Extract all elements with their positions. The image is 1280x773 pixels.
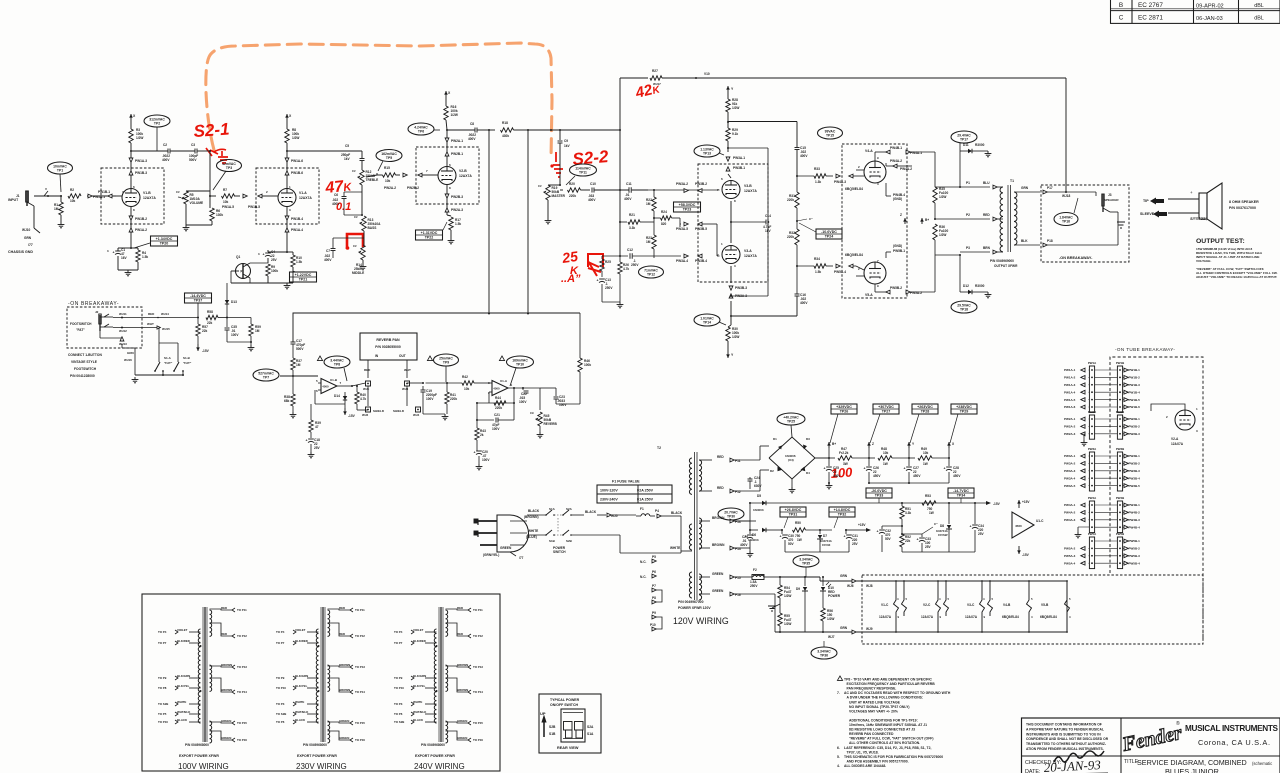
svg-text:TO P9: TO P9 xyxy=(276,676,285,680)
svg-text:PW4A-1: PW4A-1 xyxy=(1064,503,1076,507)
svg-text:GREEN: GREEN xyxy=(457,736,467,740)
test point box TP21 xyxy=(290,272,317,282)
svg-text:C10: C10 xyxy=(590,182,596,186)
svg-text:+: + xyxy=(904,467,906,471)
svg-text:WHITE: WHITE xyxy=(177,700,186,704)
svg-text:1/2W: 1/2W xyxy=(451,113,458,117)
resistor R15 xyxy=(383,173,396,177)
connector strip PW1A xyxy=(1089,366,1094,412)
export wiring outer box xyxy=(142,594,500,771)
svg-text:V2-A: V2-A xyxy=(1171,437,1179,441)
svg-text:TO P10: TO P10 xyxy=(394,686,404,690)
svg-text:GRN: GRN xyxy=(24,236,32,240)
svg-text:BLK/RED: BLK/RED xyxy=(177,639,190,643)
test point TP16 xyxy=(1054,213,1078,226)
svg-text:(GRN/YEL): (GRN/YEL) xyxy=(483,553,499,557)
svg-text:WHITE: WHITE xyxy=(295,700,304,704)
svg-text:GRN: GRN xyxy=(840,626,848,630)
svg-text:J2: J2 xyxy=(95,310,99,314)
svg-text:GREEN: GREEN xyxy=(339,719,349,723)
svg-text:PW3A-3: PW3A-3 xyxy=(1064,469,1076,473)
wire bus x528 xyxy=(527,130,529,314)
capacitor C26 xyxy=(868,458,870,466)
svg-text:C": C" xyxy=(809,217,813,221)
box TP34 xyxy=(948,488,974,498)
svg-text:TP21: TP21 xyxy=(299,278,308,282)
connector strip PW3A xyxy=(1089,452,1094,491)
connector PW2B-1 xyxy=(445,152,449,156)
svg-text:WHITE: WHITE xyxy=(413,700,422,704)
svg-text:+: + xyxy=(917,538,919,542)
svg-text:Z: Z xyxy=(900,213,902,217)
supply arrow Y xyxy=(727,86,729,93)
ground under R41 xyxy=(444,414,446,417)
svg-text:PW4B-1: PW4B-1 xyxy=(890,146,902,150)
svg-text:RED: RED xyxy=(717,486,724,490)
test point TP5 xyxy=(376,150,402,162)
svg-text:PW4A-2: PW4A-2 xyxy=(900,167,912,171)
svg-text:THIS SCHEMATIC IS FOR PCB FABR: THIS SCHEMATIC IS FOR PCB FABRICATION P/… xyxy=(844,755,943,759)
reverb pan box xyxy=(360,333,417,360)
svg-text:100V: 100V xyxy=(492,427,500,431)
svg-text:100V: 100V xyxy=(519,400,527,404)
svg-text:GREEN: GREEN xyxy=(500,546,512,550)
svg-text:15V3X: 15V3X xyxy=(822,543,831,547)
svg-text:TO S2B: TO S2B xyxy=(394,720,404,724)
tube V1-A xyxy=(256,168,319,224)
svg-text:+15V: +15V xyxy=(1022,500,1030,504)
svg-text:630V: 630V xyxy=(754,484,762,488)
feedback C21 xyxy=(476,403,478,420)
svg-text:TO P13: TO P13 xyxy=(355,665,365,669)
svg-text:WJ18: WJ18 xyxy=(1062,194,1071,198)
svg-text:PW5B-1: PW5B-1 xyxy=(893,249,905,253)
svg-text:PW2B-2: PW2B-2 xyxy=(1129,425,1141,429)
svg-text:TO P13: TO P13 xyxy=(473,665,483,669)
svg-text:PW1B-6: PW1B-6 xyxy=(291,171,303,175)
svg-text:ADJUST "VOLUME" TO REACH 10.85: ADJUST "VOLUME" TO REACH 10.85Vrms AT OU… xyxy=(1196,275,1277,279)
svg-text:REVERB PAN CONNECTED: REVERB PAN CONNECTED xyxy=(849,732,894,736)
svg-text:+307VDC: +307VDC xyxy=(878,405,894,409)
plate wire V2-B xyxy=(446,130,448,167)
svg-text:PW1B-1: PW1B-1 xyxy=(98,190,110,194)
svg-text:WJ8: WJ8 xyxy=(866,584,873,588)
svg-text:BROWN: BROWN xyxy=(457,688,468,692)
svg-text:V2-C: V2-C xyxy=(923,603,931,607)
svg-text:PW3A-1: PW3A-1 xyxy=(1064,454,1076,458)
test point box TP24 xyxy=(816,229,842,239)
svg-text:PW4A: PW4A xyxy=(1088,496,1097,500)
connector strip PW5A xyxy=(1089,537,1094,569)
op-amp U1-A xyxy=(492,381,508,396)
svg-text:1M: 1M xyxy=(296,363,301,367)
svg-text:C21: C21 xyxy=(494,413,500,417)
svg-text:ALL DIODES ARE 1N4448.: ALL DIODES ARE 1N4448. xyxy=(844,764,886,768)
svg-text:GREEN: GREEN xyxy=(221,736,231,740)
svg-text:TO P15: TO P15 xyxy=(473,721,483,725)
svg-text:TP20: TP20 xyxy=(160,242,169,246)
svg-text:TO P10: TO P10 xyxy=(158,720,168,724)
svg-text:PW2B: PW2B xyxy=(1116,410,1124,414)
svg-text:SPEAKER: SPEAKER xyxy=(1104,198,1119,202)
svg-text:-15V: -15V xyxy=(202,349,210,353)
svg-text:PW3A-4: PW3A-4 xyxy=(1064,476,1076,480)
svg-text:S1B: S1B xyxy=(549,539,556,543)
test point TP9 xyxy=(427,356,432,361)
resistor R2 xyxy=(68,194,81,198)
resistor R4 xyxy=(131,247,138,249)
svg-text:RED: RED xyxy=(364,368,371,372)
connector PW1A-2 xyxy=(129,228,133,232)
svg-text:BLK/GRN: BLK/GRN xyxy=(413,674,426,678)
svg-text:dBL: dBL xyxy=(1254,3,1264,9)
svg-text:BLACK: BLACK xyxy=(413,718,424,722)
svg-text:PW3B-2: PW3B-2 xyxy=(695,182,707,186)
resistor R43 xyxy=(476,420,478,428)
resistor R48 xyxy=(878,456,892,460)
feedback wire TP13 node to cathode xyxy=(727,147,729,149)
test point TP12 xyxy=(639,266,664,278)
red switch scribble near C3 xyxy=(206,148,228,163)
secondary GREEN P15 xyxy=(699,576,710,578)
ground R59 xyxy=(250,342,252,345)
svg-text:1N4003: 1N4003 xyxy=(753,508,764,512)
svg-text:RED: RED xyxy=(457,632,463,636)
resistor R53 xyxy=(922,501,936,505)
resistor R38 xyxy=(292,376,294,394)
svg-text:+263VDC: +263VDC xyxy=(917,405,933,409)
svg-text:500V: 500V xyxy=(296,347,304,351)
svg-text:SERVICE DIAGRAM, COMBINED: SERVICE DIAGRAM, COMBINED xyxy=(1137,758,1247,767)
resistor R36 xyxy=(933,224,937,240)
footswitch gnd wire xyxy=(121,344,123,348)
svg-text:400V: 400V xyxy=(740,543,748,547)
svg-text:-26.6VDC: -26.6VDC xyxy=(871,489,887,493)
svg-text:GREEN: GREEN xyxy=(712,589,724,593)
svg-text:WHITE: WHITE xyxy=(670,546,680,550)
connector PW3A-5 xyxy=(684,222,688,226)
wire P2 RED xyxy=(960,218,990,220)
test point box TP23 xyxy=(674,202,701,212)
switch S1-B xyxy=(159,342,178,344)
capacitor C32 xyxy=(882,525,902,527)
svg-text:BROWN: BROWN xyxy=(339,663,350,667)
svg-text:TO P4: TO P4 xyxy=(394,630,403,634)
resistor R31 xyxy=(795,192,799,208)
svg-text:100k: 100k xyxy=(271,269,278,273)
svg-text:C8: C8 xyxy=(470,122,474,126)
svg-text:V1-B: V1-B xyxy=(143,191,151,195)
svg-text:(GND): (GND) xyxy=(893,197,902,201)
grid network left of V3 xyxy=(648,189,720,191)
wire to C9 xyxy=(528,129,620,131)
svg-text:(BROWN): (BROWN) xyxy=(524,515,539,519)
supply arrow Y down xyxy=(727,341,729,350)
svg-text:TO P14: TO P14 xyxy=(237,690,247,694)
svg-text:-ON BREAKAWAY-: -ON BREAKAWAY- xyxy=(68,301,119,307)
svg-text:RED: RED xyxy=(221,606,227,610)
svg-text:1.5k: 1.5k xyxy=(815,270,821,274)
svg-text:Q1: Q1 xyxy=(236,255,240,259)
wire V1-A plate to tone stack xyxy=(287,150,362,152)
svg-text:TP32: TP32 xyxy=(838,513,847,517)
svg-text:F2A 250V: F2A 250V xyxy=(637,489,654,493)
svg-text:D14: D14 xyxy=(334,394,340,398)
AC plug xyxy=(497,515,529,552)
svg-text:220k: 220k xyxy=(787,198,794,202)
svg-text:RED: RED xyxy=(339,606,345,610)
plug wires labels xyxy=(510,520,527,522)
svg-text:S1-B: S1-B xyxy=(183,356,191,360)
svg-text:25V: 25V xyxy=(314,446,321,450)
test point TP13 xyxy=(694,145,720,157)
resistor R56 xyxy=(822,591,824,608)
svg-text:PW3A-4: PW3A-4 xyxy=(676,259,688,263)
svg-text:TO P6: TO P6 xyxy=(394,712,403,716)
ground under volume xyxy=(185,225,187,228)
box TP31 xyxy=(780,507,806,517)
svg-text:TP29: TP29 xyxy=(960,410,969,414)
svg-text:400V: 400V xyxy=(162,158,170,162)
tube V3-B xyxy=(698,164,768,282)
svg-text:INPUT: INPUT xyxy=(8,198,19,202)
svg-text:+1.34VDC: +1.34VDC xyxy=(156,237,173,241)
svg-text:BASS: BASS xyxy=(368,226,377,230)
svg-text:1/2W: 1/2W xyxy=(136,136,143,140)
+15V arrow xyxy=(846,529,856,531)
connector PW1B-6 xyxy=(285,171,289,175)
wire x620 vertical xyxy=(619,78,621,256)
svg-text:PW3B: PW3B xyxy=(1116,447,1124,451)
svg-text:PW4A-2: PW4A-2 xyxy=(1064,511,1076,515)
svg-text:C#: C# xyxy=(353,244,357,248)
svg-text:TP6: TP6 xyxy=(418,129,424,133)
middle pot R14 xyxy=(361,245,365,260)
red staple mark near C7/R14 xyxy=(347,234,363,249)
svg-text:25V: 25V xyxy=(978,532,985,536)
svg-text:PW5B-2: PW5B-2 xyxy=(890,286,902,290)
svg-text:-15V: -15V xyxy=(348,414,356,418)
svg-text:F1: F1 xyxy=(640,507,644,511)
arrow Y node xyxy=(908,442,910,448)
svg-text:+329VDC: +329VDC xyxy=(836,405,852,409)
tube breakaway dashed box xyxy=(1110,357,1203,641)
svg-text:(schematic: (schematic xyxy=(1252,761,1272,766)
connector PW1B-2 xyxy=(129,216,133,220)
svg-text:P/N 0028055000: P/N 0028055000 xyxy=(375,345,401,349)
svg-text:WJ13: WJ13 xyxy=(119,342,127,346)
svg-text:D13: D13 xyxy=(231,300,237,304)
svg-text:16V: 16V xyxy=(121,256,128,260)
svg-text:Z: Z xyxy=(872,442,874,446)
svg-text:230V WIRING: 230V WIRING xyxy=(296,762,347,771)
capacitor C28 xyxy=(948,458,950,466)
svg-text:TO P11: TO P11 xyxy=(473,608,483,612)
svg-text:PW2A-2: PW2A-2 xyxy=(384,186,396,190)
svg-text:220k: 220k xyxy=(495,406,502,410)
svg-text:WJ16: WJ16 xyxy=(124,358,132,362)
svg-text:400V: 400V xyxy=(324,258,332,262)
svg-text:TO P16: TO P16 xyxy=(355,738,365,742)
connector PW4A-3 xyxy=(836,174,840,178)
svg-text:8 OHM SPEAKER: 8 OHM SPEAKER xyxy=(1229,200,1259,204)
svg-text:400V: 400V xyxy=(800,301,808,305)
input jack J1 xyxy=(26,191,28,206)
master pot R19 xyxy=(559,184,561,186)
svg-text:ADDITIONAL CONDITIONS FOR TP1-: ADDITIONAL CONDITIONS FOR TP1-TP19: xyxy=(849,718,918,722)
resistor R10 xyxy=(287,251,293,253)
supply arrow X V2-B xyxy=(445,91,447,98)
svg-text:TP1: TP1 xyxy=(57,168,63,172)
svg-text:V3-B: V3-B xyxy=(744,184,752,188)
svg-text:RED: RED xyxy=(457,606,463,610)
svg-text:R7: R7 xyxy=(223,188,227,192)
svg-text:PW5B-4: PW5B-4 xyxy=(1129,561,1141,565)
svg-text:2k: 2k xyxy=(480,433,484,437)
svg-text:-ON TUBE BREAKAWAY-: -ON TUBE BREAKAWAY- xyxy=(1115,347,1175,352)
svg-text:PW2B-2: PW2B-2 xyxy=(407,186,419,190)
resistor R59 xyxy=(227,317,251,319)
svg-text:®: ® xyxy=(1176,720,1180,727)
svg-text:+: + xyxy=(1190,190,1193,195)
svg-text:TREBLE: TREBLE xyxy=(366,178,379,182)
connector PW3A-1 xyxy=(726,157,730,161)
revision table xyxy=(1111,0,1280,23)
svg-text:R27: R27 xyxy=(652,69,658,73)
svg-text:PW1B-3: PW1B-3 xyxy=(1129,383,1141,387)
transistor Q1 xyxy=(236,264,251,279)
svg-text:CONNECT 1-BUTTON: CONNECT 1-BUTTON xyxy=(68,353,102,357)
svg-text:PW5B: PW5B xyxy=(1116,532,1124,536)
svg-text:R20: R20 xyxy=(569,182,575,186)
svg-text:/77: /77 xyxy=(28,243,33,247)
svg-text:10k: 10k xyxy=(883,451,889,455)
svg-text:VOLTAGES MAY VARY +/- 20%: VOLTAGES MAY VARY +/- 20% xyxy=(849,709,898,713)
svg-text:TYPICAL POWER: TYPICAL POWER xyxy=(550,698,580,702)
svg-text:PW1B-6: PW1B-6 xyxy=(1129,405,1141,409)
svg-text:TP7: TP7 xyxy=(263,375,269,379)
secondary GREEN P16 xyxy=(699,593,710,595)
svg-text:R21: R21 xyxy=(629,213,635,217)
svg-text:REVERB: REVERB xyxy=(544,422,558,426)
svg-text:PW1A-6: PW1A-6 xyxy=(291,159,303,163)
capacitor C22 xyxy=(522,388,524,390)
svg-text:C#: C# xyxy=(176,190,180,194)
svg-text:C: C xyxy=(1119,15,1124,22)
heater bottom bus xyxy=(775,631,825,633)
svg-text:12AX7A: 12AX7A xyxy=(744,254,757,258)
ground under R4 xyxy=(127,270,129,273)
svg-text:220k: 220k xyxy=(450,397,457,401)
svg-text:PW3B-3: PW3B-3 xyxy=(735,286,747,290)
connector P17 xyxy=(1043,190,1047,194)
svg-text:S2A: S2A xyxy=(587,725,594,729)
box TP32 xyxy=(829,507,855,517)
ground under R26 xyxy=(619,302,621,305)
svg-text:250V: 250V xyxy=(631,263,639,267)
svg-text:22k: 22k xyxy=(207,321,213,325)
svg-text:EC 2871: EC 2871 xyxy=(1138,15,1163,22)
svg-text:OUTPUT TEST:: OUTPUT TEST: xyxy=(1196,238,1245,245)
svg-text:D12: D12 xyxy=(963,284,969,288)
svg-text:P1: P1 xyxy=(966,181,970,185)
svg-text:PW3A-5: PW3A-5 xyxy=(1064,484,1076,488)
svg-text:TP30: TP30 xyxy=(727,514,735,518)
svg-text:1M: 1M xyxy=(646,240,651,244)
resistor R21 xyxy=(619,221,621,223)
test point TP35 xyxy=(793,555,819,567)
svg-text:1/2W: 1/2W xyxy=(939,233,946,237)
svg-text:1/2W: 1/2W xyxy=(784,594,791,598)
box TP33 xyxy=(866,488,892,498)
svg-text:C9: C9 xyxy=(564,139,568,143)
svg-text:500V: 500V xyxy=(189,158,197,162)
svg-text:TO P7: TO P7 xyxy=(394,641,403,645)
svg-text:1kV: 1kV xyxy=(344,157,351,161)
capacitor C3 xyxy=(194,149,196,154)
capacitor C16 xyxy=(795,293,800,295)
svg-text:PW4B: PW4B xyxy=(1116,496,1124,500)
svg-text:WHT/BLK: WHT/BLK xyxy=(413,710,427,714)
svg-text:TO P9: TO P9 xyxy=(394,676,403,680)
svg-text:TO P16: TO P16 xyxy=(237,738,247,742)
capacitor C1 xyxy=(118,247,131,249)
svg-text:ATION FROM FENDER MUSICAL INST: ATION FROM FENDER MUSICAL INSTRUMENTS. xyxy=(1026,747,1104,751)
svg-text:1/2W: 1/2W xyxy=(732,335,739,339)
test point TP18 xyxy=(951,301,977,313)
svg-text:100k: 100k xyxy=(584,363,591,367)
voltage box TP29 xyxy=(951,404,977,414)
resistor R24 xyxy=(661,216,672,220)
resistor R34 xyxy=(796,265,798,267)
resistor R54 xyxy=(779,577,781,585)
svg-text:15VSW: 15VSW xyxy=(938,533,948,537)
svg-text:TP34: TP34 xyxy=(957,494,966,498)
capacitor C24 xyxy=(734,460,745,477)
svg-text:Corona, CA U.S.A.: Corona, CA U.S.A. xyxy=(1198,738,1270,747)
svg-text:450V: 450V xyxy=(833,474,841,478)
svg-text:1/2W: 1/2W xyxy=(292,136,299,140)
capacitor C34 xyxy=(974,502,976,504)
capacitor C14 xyxy=(762,221,766,223)
svg-text:A DVM UNDER THE FOLLOWING COND: A DVM UNDER THE FOLLOWING CONDITIONS: xyxy=(847,696,924,700)
svg-text:PW3B-4: PW3B-4 xyxy=(1129,476,1141,480)
svg-text:TP37: TP37 xyxy=(194,299,203,303)
svg-text:PW2B-3: PW2B-3 xyxy=(1129,432,1141,436)
svg-text:R18: R18 xyxy=(502,121,508,125)
svg-text:9.1k: 9.1k xyxy=(732,132,738,136)
capacitor C7 xyxy=(333,237,364,239)
export transformer 100V xyxy=(202,607,204,742)
capacitor C35 xyxy=(226,318,228,328)
arrow -15V reverb xyxy=(344,404,346,408)
svg-text:PW1B-2: PW1B-2 xyxy=(135,217,147,221)
ground under master xyxy=(547,218,549,221)
resistor R50 xyxy=(793,528,806,532)
svg-text:EXPORT POWER XFWR: EXPORT POWER XFWR xyxy=(415,754,455,758)
svg-text:10k: 10k xyxy=(70,199,76,203)
connector PW3A-4 xyxy=(684,254,688,258)
svg-text:TP8: TP8 xyxy=(334,362,340,366)
resistor R37 xyxy=(291,358,295,370)
svg-text:PW5B-1: PW5B-1 xyxy=(1129,539,1141,543)
heater V4-B xyxy=(1027,581,1032,632)
svg-text:TP31: TP31 xyxy=(789,513,798,517)
svg-text:12AX7A: 12AX7A xyxy=(459,174,472,178)
export transformer 240V xyxy=(438,607,440,742)
svg-text:D7: D7 xyxy=(823,534,827,538)
diode D9 xyxy=(804,577,806,586)
